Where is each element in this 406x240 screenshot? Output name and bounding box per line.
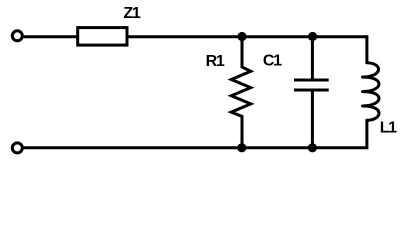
node dot R1 top <box>237 32 246 41</box>
inductor L1 <box>363 63 380 121</box>
capacitor C1 bottom lead <box>311 92 314 148</box>
node dot C1 bottom <box>308 143 317 152</box>
svg-text:Z1: Z1 <box>123 5 140 22</box>
node dot C1 top <box>308 32 317 41</box>
resistor R1 <box>231 37 250 148</box>
node dot R1 bottom <box>237 143 246 152</box>
wire right vertical lower (L1 bottom lead) <box>365 120 368 149</box>
terminal top-left <box>12 31 22 41</box>
capacitor C1 top lead <box>311 37 314 79</box>
capacitor C1 bottom plate <box>294 89 329 92</box>
svg-text:L1: L1 <box>380 119 397 136</box>
terminal bottom-left <box>12 143 22 153</box>
wire right vertical upper (L1 top lead) <box>365 35 368 63</box>
capacitor C1 top plate <box>294 79 329 82</box>
wire top horizontal <box>24 35 367 38</box>
svg-text:R1: R1 <box>206 53 225 70</box>
svg-text:C1: C1 <box>263 52 282 69</box>
impedance Z1 <box>78 28 127 45</box>
wire bottom horizontal <box>24 146 367 149</box>
